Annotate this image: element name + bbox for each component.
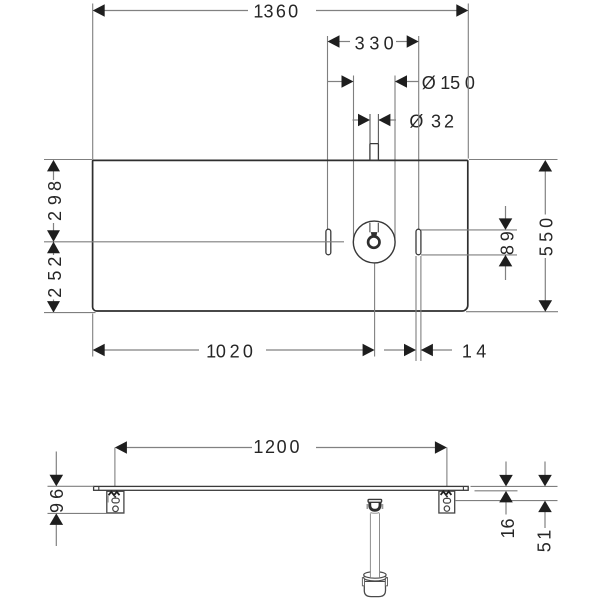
svg-text:330: 330 <box>355 34 394 54</box>
svg-text:Ø150: Ø150 <box>422 73 475 93</box>
dimension 1200 <box>115 437 447 486</box>
drain hole detail <box>368 223 379 248</box>
tailpipe <box>370 513 379 577</box>
trap cup body <box>362 578 387 597</box>
washbasin outline (top view) <box>93 160 468 311</box>
drain circle Ø150 <box>353 221 395 263</box>
dimension 550 <box>466 160 558 312</box>
dimension 51 <box>535 462 555 553</box>
left mounting bracket <box>107 491 124 513</box>
dimension Ø32 <box>353 112 454 144</box>
left fixing slot <box>326 229 331 255</box>
siphon U-bend <box>367 502 384 513</box>
dimension 89 <box>421 206 517 280</box>
svg-text:298: 298 <box>45 181 65 221</box>
svg-text:Ø32: Ø32 <box>409 112 454 132</box>
svg-text:1360: 1360 <box>253 2 298 22</box>
right fixing slot <box>416 229 421 255</box>
dimension 252 <box>44 242 96 313</box>
reference line slab bottom right <box>475 490 518 492</box>
dimension 14 <box>384 256 486 362</box>
dimension 1360 <box>93 2 469 160</box>
centerline through fixing slots <box>44 241 344 243</box>
right mounting bracket <box>439 491 455 513</box>
siphon drain flange <box>368 499 382 502</box>
washbasin slab (front view) <box>94 486 469 490</box>
dimension 16 <box>498 462 518 539</box>
trap cup rim <box>364 572 386 581</box>
reference line screw axis right <box>455 500 558 502</box>
svg-text:16: 16 <box>498 518 518 538</box>
reference line slab top right <box>471 485 558 487</box>
dimension 330 <box>328 34 419 229</box>
faucet hole rectangle <box>370 144 379 161</box>
dimension Ø150 <box>328 73 475 242</box>
dimension 298 <box>44 160 92 242</box>
svg-text:550: 550 <box>537 218 557 256</box>
svg-text:252: 252 <box>45 257 65 298</box>
dimension 1020 <box>93 264 375 362</box>
svg-text:1200: 1200 <box>253 437 299 457</box>
dimension 96 <box>47 452 125 547</box>
svg-text:1020: 1020 <box>206 342 253 362</box>
